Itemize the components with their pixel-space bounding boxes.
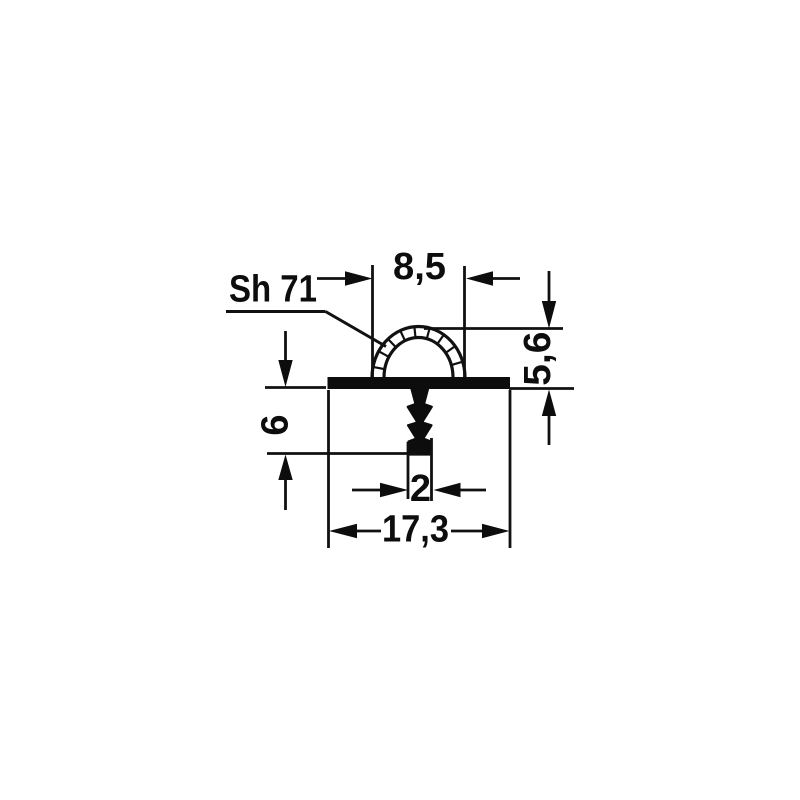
leader diagonal to dome	[326, 312, 387, 347]
dimension 5,6 : upper arrow shaft	[548, 271, 551, 302]
dimension 5,6 : upper arrowhead	[542, 301, 556, 329]
dimension 5,6 : bottom extension line	[509, 387, 574, 390]
dimension 17,3 : right arrowhead	[482, 524, 510, 538]
barbed stem	[408, 389, 432, 455]
svg-text:6: 6	[255, 414, 297, 435]
dimension 8,5 : right arrowhead	[466, 271, 493, 285]
svg-text:17,3: 17,3	[382, 509, 449, 551]
dimension 17,3 : dimension line right segment	[451, 530, 483, 533]
flange bar	[328, 377, 511, 389]
dimension 2 : right extension line	[430, 438, 433, 501]
dimension 6 : lower arrowhead	[278, 455, 292, 481]
dimension 17,3 : dimension line left segment	[356, 530, 381, 533]
svg-text:5,6: 5,6	[517, 332, 559, 386]
dimension 2 : right arrow shaft	[459, 489, 486, 492]
dimension 6 : top extension line	[265, 386, 326, 389]
dimension 6 : upper arrow shaft	[284, 331, 287, 361]
svg-text:Sh 71: Sh 71	[229, 269, 317, 311]
dimension 6 : lower arrow shaft	[284, 480, 287, 510]
dimension 17,3 : right extension line	[509, 390, 512, 548]
dimension 2 : left extension line	[407, 442, 410, 499]
dome inner wall	[384, 338, 453, 378]
dimension 17,3 : left extension line	[327, 390, 330, 548]
dimension 5,6 : top extension line	[424, 327, 563, 330]
dimension 2 : right arrowhead	[434, 483, 461, 497]
dimension 5,6 : lower arrow shaft	[548, 414, 551, 445]
leader line under Sh 71	[226, 310, 326, 313]
dimension 8,5 : left extension line	[371, 265, 374, 377]
svg-text:2: 2	[410, 468, 431, 510]
dimension 2 : left arrow shaft	[352, 489, 381, 492]
dimension 6 : upper arrowhead	[278, 360, 292, 387]
dimension 8,5 : left arrowhead	[345, 271, 373, 285]
dimension 5,6 : lower arrowhead	[542, 390, 556, 417]
dome wall hatch ticks	[373, 327, 463, 370]
dimension 8,5 : left arrow shaft	[317, 277, 347, 280]
dimension 6 : bottom extension line	[267, 452, 417, 455]
dimension 17,3 : left arrowhead	[329, 524, 357, 538]
dimension 8,5 : right arrow shaft	[491, 277, 520, 280]
dimension 2 : left arrowhead	[380, 483, 408, 497]
svg-text:8,5: 8,5	[393, 246, 446, 288]
dome outer wall	[372, 327, 465, 378]
dimension 8,5 : right extension line	[463, 266, 466, 377]
